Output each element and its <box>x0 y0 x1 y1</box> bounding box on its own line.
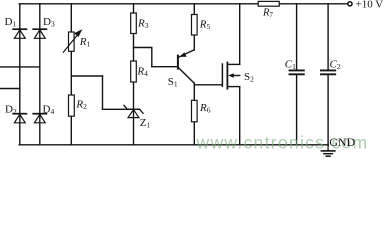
wire S1 collector to S2 gate <box>194 84 222 86</box>
svg-text:+10 V: +10 V <box>356 0 384 11</box>
wire divider tap to zener cathode <box>103 108 134 110</box>
resistor R5 <box>192 15 198 36</box>
wire R3 bottom branch horizontal <box>134 47 152 49</box>
transistor S2 (MOSFET) <box>222 63 239 89</box>
resistor R1 (adjustable) <box>63 31 81 53</box>
wire C1 column lower <box>296 75 298 145</box>
wire S2 source column <box>239 87 241 145</box>
ground <box>321 151 334 156</box>
wire C2 column upper <box>327 4 329 70</box>
wire divider tap vertical <box>102 76 104 109</box>
resistor R3 <box>131 13 137 34</box>
diode D2 <box>13 114 26 123</box>
capacitor C1 <box>290 70 304 74</box>
svg-text:GND: GND <box>329 135 355 149</box>
wire base lead of S1 <box>152 66 177 68</box>
output terminal +10V <box>348 2 352 6</box>
resistor R2 <box>69 95 75 116</box>
wire bridge right column (D3 D4) <box>39 4 41 145</box>
wire AC input upper <box>0 66 40 68</box>
diode D3 <box>33 29 46 38</box>
wire S2 drain column <box>239 4 241 65</box>
wire C2 column lower <box>327 75 329 145</box>
capacitor C2 <box>321 70 335 74</box>
wire AC input lower <box>0 88 20 90</box>
wire C1 column upper <box>296 4 298 70</box>
diode D4 <box>33 114 46 123</box>
wire bridge left column (D1 D2) <box>19 4 21 145</box>
wire top rail right of R7 to output terminal <box>279 3 348 5</box>
wire ground stub <box>327 145 329 151</box>
wire base branch vertical <box>151 48 153 67</box>
resistor R6 <box>192 100 198 122</box>
wire top positive rail <box>19 3 258 5</box>
transistor S1 (PNP) <box>178 50 194 83</box>
wire R1 R2 divider column <box>70 4 72 145</box>
resistor R7 <box>258 1 279 6</box>
resistor R4 <box>131 61 137 82</box>
wire divider tap horizontal <box>71 75 102 77</box>
diode D1 <box>13 29 26 38</box>
wire S1 collector node to R6 column <box>193 83 195 145</box>
wire R5 column to S1 emitter <box>193 4 195 50</box>
zener diode Z1 <box>124 105 143 117</box>
wire R3 R4 Z1 column <box>133 4 135 145</box>
wire bottom negative rail <box>19 144 328 146</box>
